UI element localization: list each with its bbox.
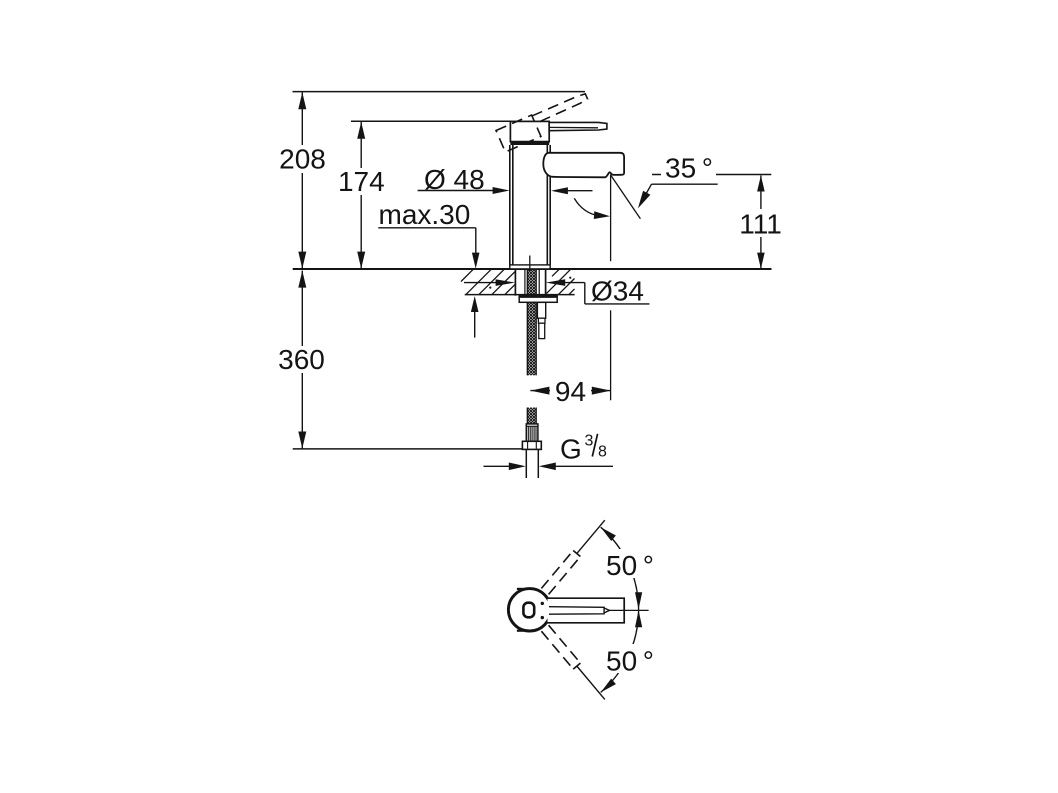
label 174: [334, 168, 389, 195]
plan view: 50deg arc lower: [601, 610, 639, 693]
dimension leader O34: [464, 282, 496, 284]
lever handle (solid): [549, 122, 607, 130]
plan view: inner grip taper: [549, 607, 604, 615]
label 94: [550, 378, 591, 404]
label 50deg upper: [602, 549, 658, 578]
svg-text:8: 8: [598, 444, 607, 461]
plan view: lower ghost spout (dashed): [549, 625, 581, 663]
dimension 208 line: [301, 92, 303, 268]
hose fitting (knurled): [526, 424, 538, 441]
label O34: [588, 275, 651, 303]
plan view: body circle: [508, 589, 550, 631]
hose edge lines inside shank: [524, 269, 526, 296]
svg-text:94: 94: [555, 376, 586, 407]
dimension 174 line: [360, 122, 362, 269]
spout outlet axis vertical line: [610, 175, 612, 261]
braided hose (lower run above fitting): [527, 408, 536, 425]
dimension leader max.30: [378, 227, 476, 229]
label 111: [734, 209, 787, 237]
spout outlet 35deg slant line: [610, 175, 640, 219]
dimension leader O48: [418, 190, 494, 192]
plan view: upper ghost spout (dashed): [541, 551, 573, 589]
plan view: lower swivel axis line: [577, 667, 605, 700]
dimension leader G3/8: [484, 465, 512, 467]
faucet body column walls: [509, 145, 511, 265]
spout: [543, 153, 624, 178]
svg-text:50 °: 50 °: [606, 645, 654, 676]
plan view: horizontal centerline: [609, 609, 649, 611]
countertop deck line: [293, 268, 772, 270]
spout-level reference line (35deg / 111 top): [652, 174, 771, 176]
svg-text:max.30: max.30: [379, 199, 471, 230]
plan view: base plate ticks: [517, 588, 524, 590]
svg-text:3: 3: [585, 432, 594, 449]
plan view: pivot dots: [541, 602, 544, 605]
svg-text:174: 174: [338, 166, 385, 197]
label 35deg: [661, 155, 716, 181]
body centerline: [529, 256, 531, 273]
label 208: [275, 145, 330, 173]
svg-text:360: 360: [278, 344, 325, 375]
label 360: [274, 346, 329, 373]
svg-text:35 °: 35 °: [665, 152, 713, 183]
svg-text:Ø34: Ø34: [591, 275, 644, 306]
threaded shank walls: [514, 269, 516, 296]
cartridge head: [510, 121, 549, 141]
mounting washer/nut: [519, 296, 557, 303]
35deg leader: [652, 183, 718, 185]
label 50deg lower: [602, 644, 658, 673]
connection tube end: [525, 449, 527, 478]
head-top reference line (174 top): [351, 120, 511, 122]
dimension 94 line: [530, 390, 610, 392]
base plate: [510, 265, 550, 269]
plan view: 50deg arc upper: [601, 527, 639, 610]
dimension 111 line: [760, 176, 762, 269]
hex nut G3/8: [522, 441, 541, 449]
hose-end reference line (360 bottom): [293, 448, 523, 450]
spout swing arc arrow: [574, 198, 600, 216]
second hose stud below washer: [537, 302, 545, 318]
head joint ring (dark band): [510, 142, 549, 145]
top reference line (208 top / open handle tip): [293, 91, 586, 93]
countertop slab underside line: [465, 294, 575, 296]
open-position handle (dashed ghost), rotated: [496, 92, 594, 152]
svg-text:50 °: 50 °: [606, 550, 654, 581]
svg-text:111: 111: [739, 208, 782, 239]
svg-text:208: 208: [279, 143, 326, 174]
dimension 360 line: [301, 271, 303, 449]
plan view: arc arrowheads: [601, 527, 616, 541]
svg-text:Ø 48: Ø 48: [424, 164, 485, 195]
svg-text:G: G: [560, 434, 582, 465]
plan view: spout/handle bar: [548, 598, 625, 623]
slab hatching right: [547, 269, 575, 294]
slab hatching left: [461, 269, 515, 294]
plan view: upper swivel axis line: [577, 520, 605, 553]
braided hose (upper run): [527, 269, 536, 375]
plan view: cartridge slot: [523, 603, 534, 618]
